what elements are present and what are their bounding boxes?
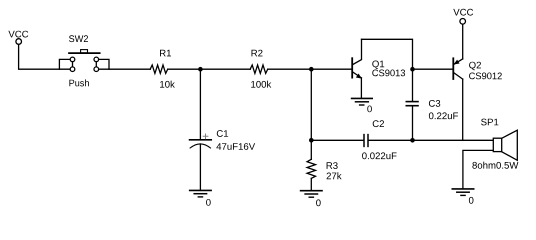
switch SW2 label (69, 35, 88, 42)
wire node E to Q2 base (413, 68, 453, 70)
capacitor C2 (311, 120, 396, 159)
junction node E (Q1 collector/Q2 base/C3) (410, 67, 415, 72)
resistor R2 (250, 50, 271, 88)
ground (under R3) (301, 191, 322, 206)
wire speaker bottom pin to ground (463, 150, 493, 189)
right bracket wire (99, 59, 109, 69)
junction node B (R2/Q1/R3 branch) (309, 67, 314, 72)
capacitor C3 (406, 69, 458, 140)
contact circle right-top (94, 57, 99, 62)
node VCC (right) (453, 9, 473, 24)
wire R2 to Q1 base (268, 68, 351, 70)
junction node A (R1/R2/C1) (198, 67, 203, 72)
wire Q1 collector loop to node E (362, 39, 413, 69)
contact circle right-bottom (94, 67, 99, 72)
transistor Q2 (453, 58, 502, 79)
resistor R1 (150, 50, 175, 88)
switch SW2 (59, 50, 109, 72)
wire R3 to ground (310, 178, 312, 190)
junction node D (C2/C3/SP1) (410, 138, 415, 143)
resistor R3 (307, 140, 342, 179)
wire switch to R1 (99, 68, 150, 70)
junction node C (R3/C2) (309, 138, 314, 143)
transistor Q1 (352, 39, 405, 78)
capacitor C1 (190, 130, 256, 150)
wire C1 to ground (199, 144, 201, 190)
wire Q2 collector down (462, 79, 464, 140)
contact link left (72, 62, 74, 67)
ground (under C1) (190, 190, 211, 205)
speaker SP1 (472, 119, 518, 169)
wire C2 to speaker line (369, 139, 493, 141)
ground (speaker) (452, 189, 473, 204)
switch Push label (69, 79, 88, 86)
contact link right (95, 62, 97, 67)
wire VCC-right to Q2 emitter (462, 24, 464, 59)
contact circle left-top (70, 57, 75, 62)
wire VCC-left down and to switch (19, 45, 71, 70)
wire node A down to C1 (199, 69, 201, 139)
button cap (81, 50, 88, 53)
wire Q1 emitter to ground (360, 78, 362, 98)
contact circle left-bottom (70, 67, 75, 72)
wire R1 to R2 (168, 68, 251, 70)
left bracket wire (59, 59, 70, 69)
node VCC (left) (8, 31, 28, 45)
wire node B down to node C (310, 69, 312, 140)
ground (Q1 emitter) (352, 98, 373, 112)
actuator bar (69, 52, 100, 54)
